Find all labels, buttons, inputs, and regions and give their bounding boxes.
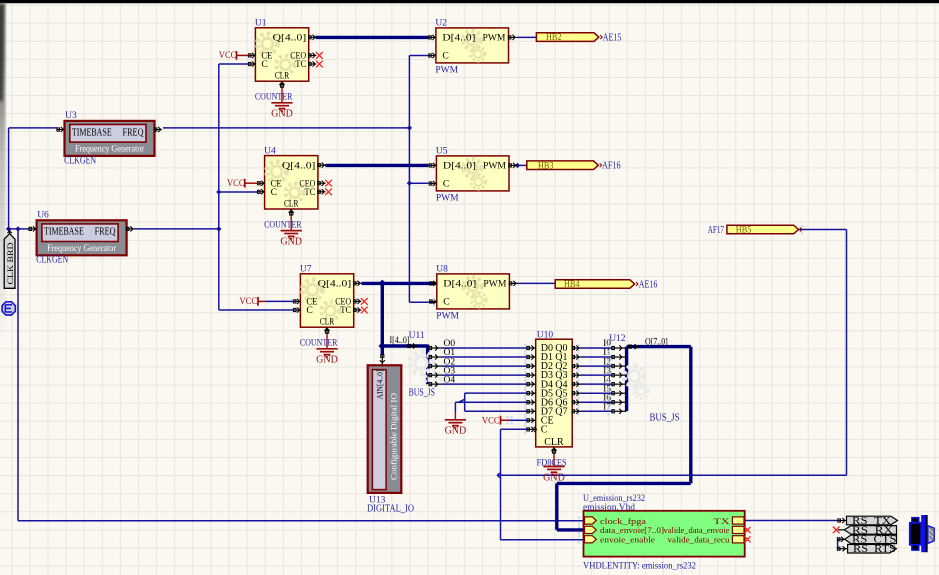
svg-text:D[4..0]: D[4..0] [443, 279, 476, 290]
svg-text:VCC: VCC [482, 417, 500, 427]
port RS_RX [838, 525, 897, 536]
wire U2 PWM to port HB2 [517, 36, 537, 38]
wire clock rail x=409 (U2.C - U5.C - U8.C) [408, 56, 410, 303]
svg-text:U8: U8 [436, 265, 448, 275]
svg-text:U3: U3 [65, 111, 77, 121]
svg-text:GND: GND [543, 472, 565, 483]
svg-text:Q[4..0]: Q[4..0] [273, 33, 307, 44]
svg-text:U6: U6 [37, 210, 49, 220]
svg-text:GND: GND [316, 355, 338, 366]
svg-text:C: C [443, 297, 449, 308]
svg-text:FREQ: FREQ [95, 227, 117, 238]
svg-text:C: C [306, 305, 312, 316]
bus vertical branch to I[4..0] [381, 283, 384, 346]
svg-text:Q[4..0]: Q[4..0] [318, 279, 352, 290]
sheet entry valide_data_envoie [732, 526, 744, 533]
GND power symbol for D6/D7 tie [454, 412, 456, 420]
svg-text:clock_fpga: clock_fpga [600, 517, 646, 526]
GND power symbol below U4 [290, 216, 292, 230]
svg-text:U11: U11 [409, 331, 425, 341]
svg-text:U4: U4 [264, 146, 276, 156]
svg-text:AF16: AF16 [602, 161, 621, 172]
svg-text:PWM: PWM [483, 161, 506, 172]
svg-text:PWM: PWM [435, 66, 458, 76]
blue directive octagon [2, 302, 15, 315]
sheet entry data_envoie[7..0] [585, 526, 597, 533]
bus splitter U11 [390, 331, 442, 399]
svg-text:CLKGEN: CLKGEN [64, 155, 96, 166]
port HB4 [555, 280, 634, 289]
no-ERC marks U7 CEO/TC [361, 298, 368, 305]
bus joiner U12 [609, 334, 679, 423]
bus O[7..0] from U12 to emission data_envoie [627, 345, 691, 348]
svg-text:O[7..0]: O[7..0] [645, 337, 668, 347]
svg-text:DIGITAL_IO: DIGITAL_IO [367, 504, 414, 515]
wire emission TX to port RS_TX [745, 520, 838, 522]
wire right rail down x=846 [846, 230, 848, 476]
no-ERC marks on valide outputs [745, 527, 751, 533]
svg-text:U7: U7 [300, 265, 312, 275]
svg-text:BUS_JS: BUS_JS [409, 388, 435, 399]
PWM block U5 [429, 147, 517, 204]
bus U7.Q to U8.D and branch [362, 282, 438, 285]
wire CLK BRD down-rail to emission clock_fpga [17, 229, 19, 521]
svg-text:CLR: CLR [544, 437, 564, 448]
svg-text:D[4..0]: D[4..0] [442, 33, 475, 44]
bus U12 vertical collector [625, 347, 628, 411]
port HB3 [527, 161, 599, 170]
bus branch down into U13 [381, 346, 384, 355]
svg-text:VCC: VCC [240, 297, 258, 307]
svg-text:Q7: Q7 [555, 406, 567, 417]
port RS_TX [838, 516, 898, 527]
svg-text:CLR: CLR [320, 317, 335, 328]
left panel shadow [0, 3, 6, 348]
bus U11 internal vertical [426, 345, 429, 385]
svg-text:TIMEBASE: TIMEBASE [72, 127, 112, 138]
svg-text:RS_RTS: RS_RTS [853, 544, 896, 555]
svg-text:U5: U5 [436, 147, 448, 157]
svg-text:HB2: HB2 [546, 33, 562, 43]
compile mask dots [433, 225, 803, 543]
svg-text:U2: U2 [435, 19, 447, 29]
sheet symbol U_emission_rs232 [583, 494, 745, 571]
svg-text:I[4..0]: I[4..0] [390, 336, 410, 346]
bus U4.Q to U5.D [325, 164, 428, 167]
port HB2 [536, 33, 598, 42]
wires U10 Q0-Q7 to U12 [581, 347, 613, 349]
svg-text:COUNTER: COUNTER [264, 220, 302, 230]
svg-text:VHDLENTITY: emission_rs232: VHDLENTITY: emission_rs232 [583, 562, 696, 572]
sheet entry valide_data_recu [732, 536, 744, 543]
DB9 serial connector icon [910, 515, 934, 552]
svg-text:valide_data_recu: valide_data_recu [668, 536, 731, 545]
svg-text:data_envoie[7..0]: data_envoie[7..0] [600, 526, 664, 535]
port HB5 [727, 225, 799, 234]
wire U5 PWM to port HB3 [517, 164, 527, 166]
PWM block U2 [429, 19, 517, 76]
svg-text:CLR: CLR [284, 198, 299, 209]
port CLK BRD [4, 229, 15, 288]
svg-text:D[4..0]: D[4..0] [443, 161, 476, 172]
svg-text:valide_data_envoie: valide_data_envoie [664, 526, 730, 535]
svg-text:AIN[4..0]: AIN[4..0] [375, 369, 384, 399]
svg-text:BUS_JS: BUS_JS [650, 412, 680, 423]
svg-text:envoie_enable: envoie_enable [600, 536, 655, 545]
svg-text:Frequency Generator: Frequency Generator [47, 244, 117, 254]
svg-text:U12: U12 [609, 334, 626, 344]
counter U7 [240, 265, 368, 366]
svg-text:C: C [271, 187, 277, 198]
counter U1 [219, 19, 323, 120]
wire U10 D5/D6/D7 tie to GND [465, 392, 527, 394]
svg-text:HB4: HB4 [564, 280, 580, 290]
wire clock rail x=218 (U1.C - U4.C - U7.C) [218, 64, 220, 310]
svg-text:GND: GND [280, 236, 302, 247]
svg-text:TC: TC [295, 59, 306, 70]
svg-text:GND: GND [445, 426, 467, 437]
svg-text:VCC: VCC [227, 179, 245, 189]
svg-text:FREQ: FREQ [123, 127, 145, 138]
svg-text:PWM: PWM [436, 194, 459, 204]
svg-text:O4: O4 [444, 375, 456, 385]
svg-text:PWM: PWM [436, 312, 459, 322]
bus U1.Q to U2.D [316, 36, 429, 39]
wire U3 FREQ output to clock rail x=409 [163, 127, 409, 129]
wire U8 PWM to port HB4 [517, 282, 555, 284]
svg-text:AF17: AF17 [708, 225, 724, 236]
port RS_CTS [837, 535, 896, 546]
svg-text:PWM: PWM [483, 279, 506, 290]
GND power symbol below U7 [326, 334, 328, 348]
svg-text:TX: TX [714, 517, 730, 526]
svg-text:U10: U10 [537, 330, 554, 340]
register U10 [527, 330, 581, 454]
svg-text:PWM: PWM [483, 33, 506, 44]
clock generator U3 [57, 111, 162, 166]
sheet entry clock_fpga [585, 517, 597, 524]
svg-text:AE16: AE16 [639, 279, 658, 290]
svg-text:CLKGEN: CLKGEN [36, 255, 68, 266]
wire port HB5 to right rail [799, 229, 847, 231]
wires U11 outputs O0-O4 to U10 D0-D4 [441, 347, 527, 349]
svg-text:C: C [443, 179, 449, 190]
svg-text:TC: TC [304, 187, 315, 198]
no-ERC mark RS_RX [833, 527, 840, 534]
svg-text:I7: I7 [603, 402, 611, 412]
svg-text:Frequency Generator: Frequency Generator [75, 145, 145, 155]
sheet entry TX [732, 517, 744, 524]
svg-text:COUNTER: COUNTER [300, 339, 338, 349]
clock generator U6 [29, 210, 134, 265]
svg-text:C: C [442, 51, 448, 62]
svg-text:Q[4..0]: Q[4..0] [282, 160, 316, 171]
svg-text:C: C [261, 59, 267, 70]
port RS_RTS [837, 544, 896, 555]
svg-text:HB5: HB5 [736, 226, 752, 236]
bus I[4..0] into U11 [382, 344, 427, 347]
no-ERC marks U4 CEO/TC [325, 180, 332, 187]
wire U10 C to emission envoie_enable [501, 428, 527, 430]
wire U6 FREQ to clock rail [18, 228, 29, 230]
wire loopback RS_CTS / RS_RTS [837, 539, 839, 548]
svg-text:CLR: CLR [275, 71, 290, 82]
wire right rail to net crossing at x=497 [498, 474, 846, 476]
svg-text:CLK BRD: CLK BRD [5, 243, 15, 285]
configurable digital IO U13 [367, 355, 414, 515]
wire CLK rail left vertical to U3 [8, 128, 10, 229]
svg-text:TIMEBASE: TIMEBASE [44, 227, 84, 238]
svg-text:Configurable Digital IO: Configurable Digital IO [388, 393, 398, 480]
junction dots [216, 189, 221, 194]
sheet entry envoie_enable [585, 536, 597, 543]
svg-text:GND: GND [271, 109, 293, 120]
svg-text:emission.Vhd: emission.Vhd [583, 503, 635, 513]
no-ERC marks U1 CEO/TC [316, 52, 323, 59]
svg-text:VCC: VCC [219, 51, 237, 61]
GND power symbol below U10 [553, 455, 555, 467]
svg-text:HB3: HB3 [538, 161, 554, 171]
counter U4 [227, 146, 332, 247]
svg-text:C: C [541, 424, 548, 435]
svg-text:TC: TC [340, 305, 351, 316]
window top edge bar [0, 0, 939, 3]
GND power symbol below U1 [281, 88, 283, 102]
PWM block U8 [430, 265, 518, 322]
svg-text:AE15: AE15 [603, 32, 622, 43]
svg-text:U1: U1 [255, 19, 267, 29]
svg-text:COUNTER: COUNTER [255, 93, 293, 103]
